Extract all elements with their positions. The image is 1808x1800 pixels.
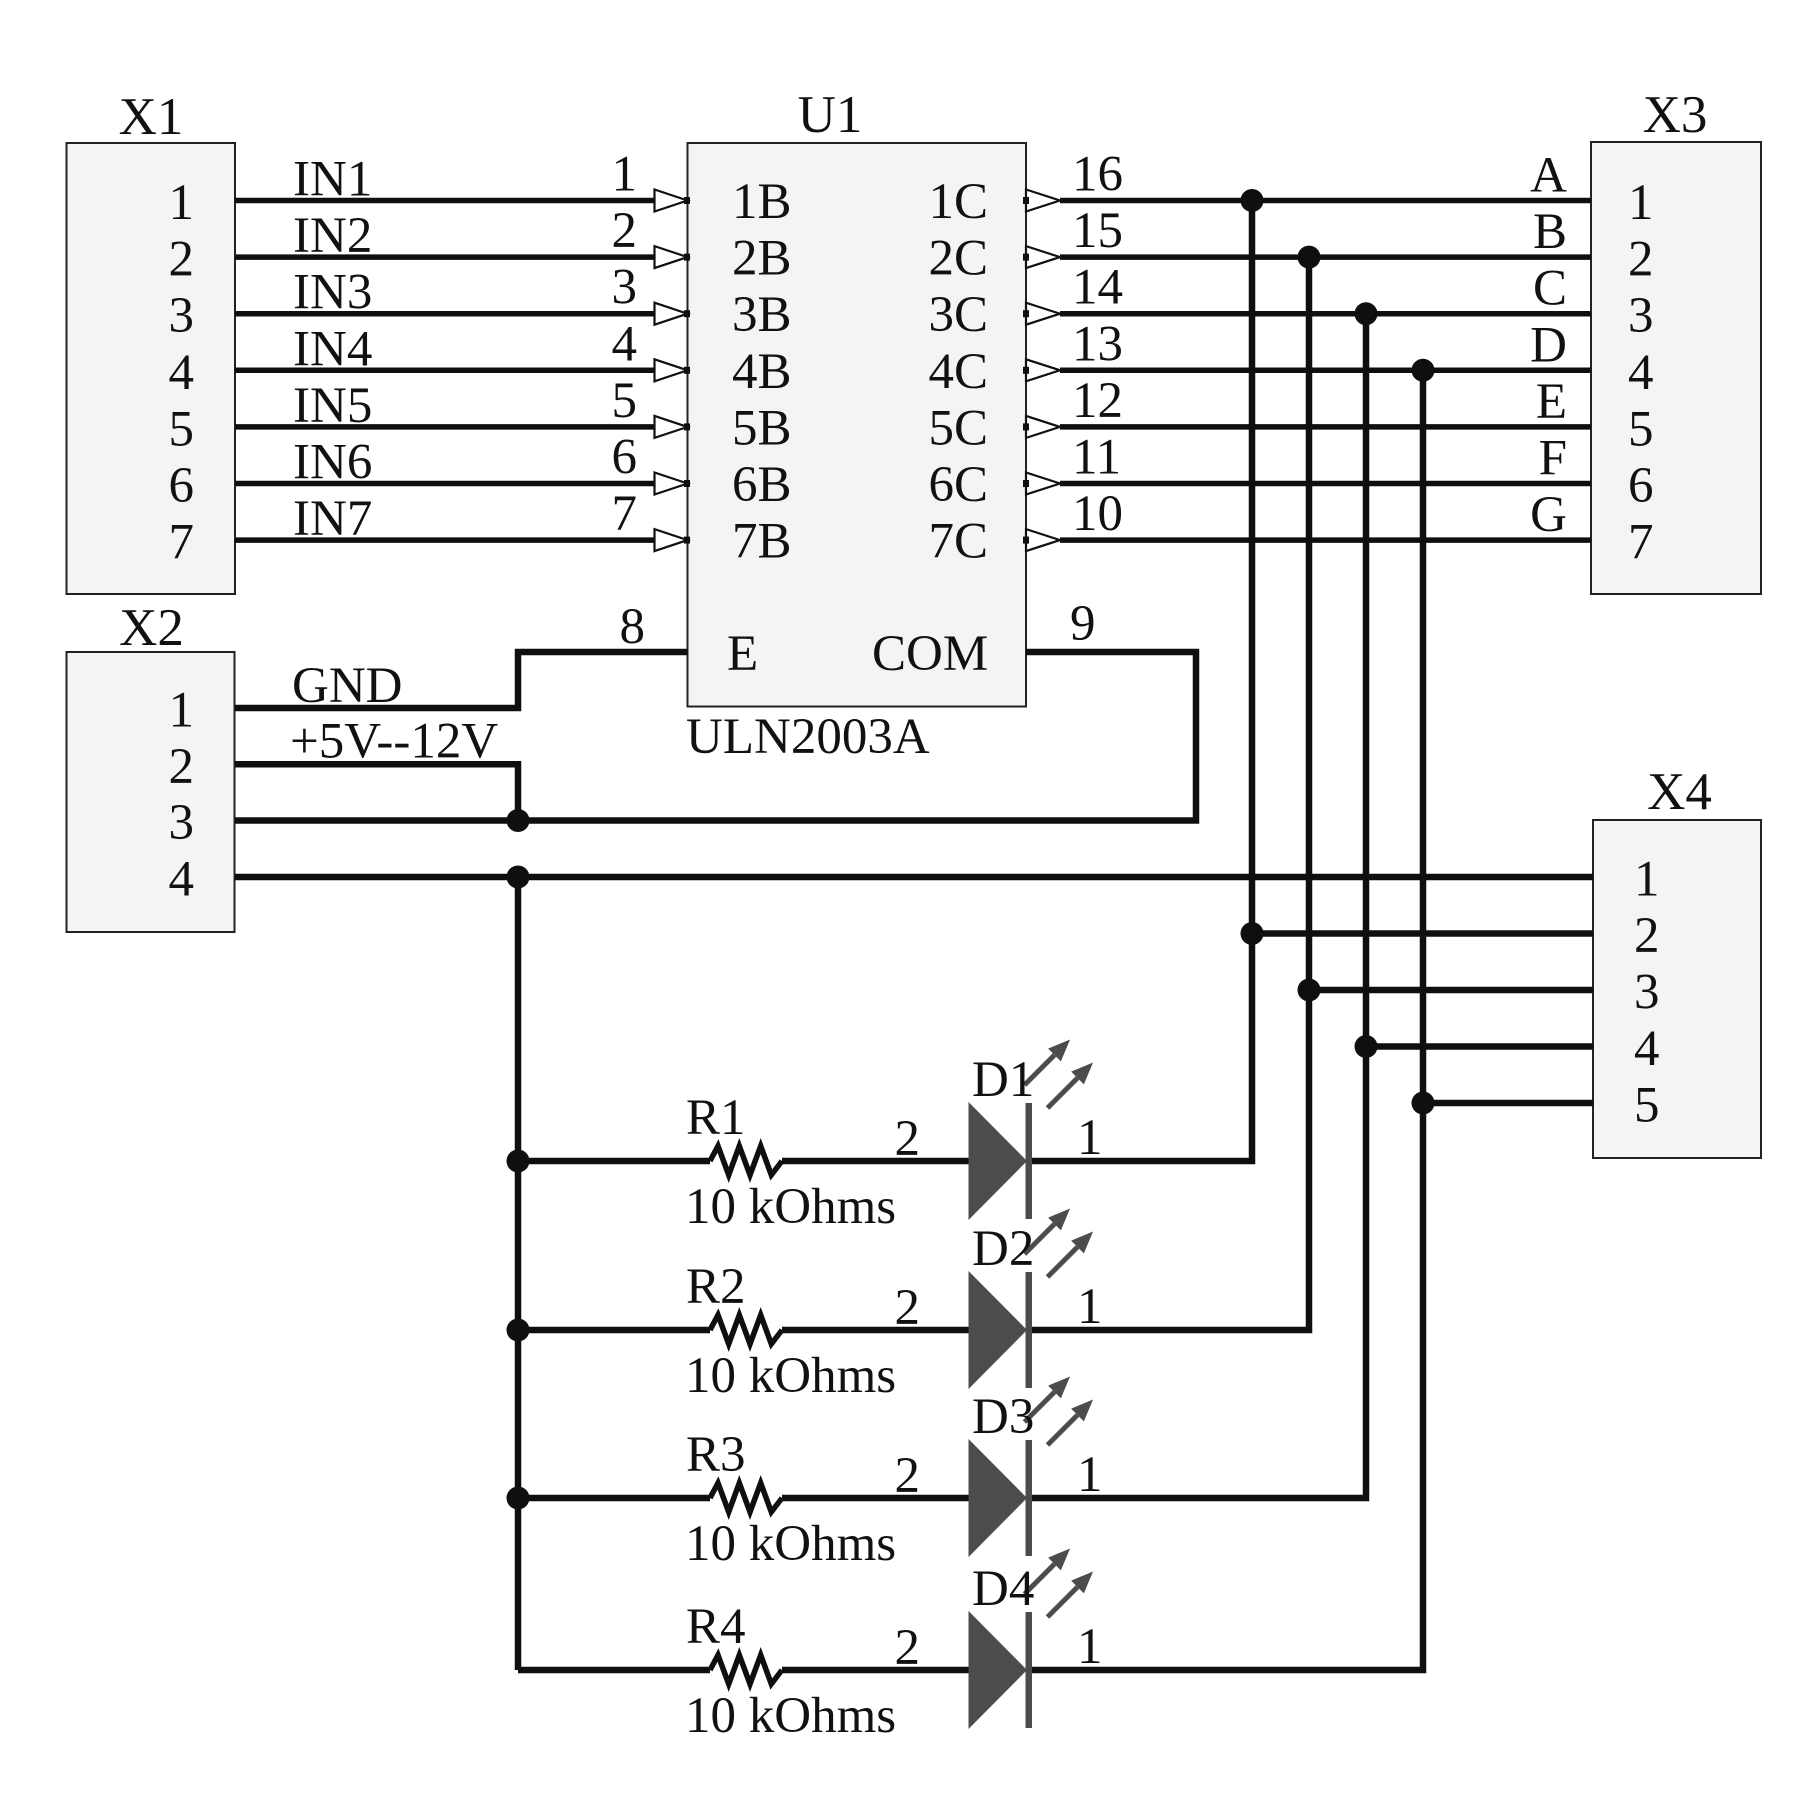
svg-text:D3: D3 xyxy=(972,1389,1034,1445)
svg-text:X3: X3 xyxy=(1643,86,1708,144)
svg-text:2B: 2B xyxy=(732,231,792,287)
svg-text:5B: 5B xyxy=(732,400,792,456)
svg-text:7C: 7C xyxy=(928,514,988,570)
svg-text:1: 1 xyxy=(1077,1110,1103,1166)
svg-text:1: 1 xyxy=(1077,1279,1103,1335)
svg-text:X1: X1 xyxy=(119,88,184,146)
svg-text:2: 2 xyxy=(895,1620,921,1676)
svg-text:A: A xyxy=(1530,148,1567,204)
svg-text:5: 5 xyxy=(612,373,638,429)
svg-text:6C: 6C xyxy=(928,457,988,513)
svg-text:1: 1 xyxy=(1634,852,1660,908)
svg-text:5: 5 xyxy=(1634,1078,1660,1134)
svg-text:X4: X4 xyxy=(1647,763,1712,821)
svg-text:D1: D1 xyxy=(972,1052,1034,1108)
svg-text:2: 2 xyxy=(169,739,195,795)
svg-text:1: 1 xyxy=(169,175,195,231)
svg-text:COM: COM xyxy=(872,626,988,682)
svg-text:3: 3 xyxy=(169,795,195,851)
svg-text:6: 6 xyxy=(169,458,195,514)
svg-text:15: 15 xyxy=(1072,203,1123,259)
svg-text:6: 6 xyxy=(1628,458,1654,514)
svg-text:U1: U1 xyxy=(798,86,863,144)
svg-text:10 kOhms: 10 kOhms xyxy=(685,1688,896,1744)
svg-text:3: 3 xyxy=(612,260,638,316)
svg-text:C: C xyxy=(1533,261,1567,317)
svg-text:B: B xyxy=(1533,204,1567,260)
svg-text:2: 2 xyxy=(895,1280,921,1336)
svg-text:4: 4 xyxy=(1634,1021,1660,1077)
svg-text:R1: R1 xyxy=(686,1090,746,1146)
svg-text:2C: 2C xyxy=(928,231,988,287)
svg-text:GND: GND xyxy=(292,658,403,714)
svg-text:3B: 3B xyxy=(732,287,792,343)
svg-text:10 kOhms: 10 kOhms xyxy=(685,1179,896,1235)
svg-text:13: 13 xyxy=(1072,316,1123,372)
svg-text:D: D xyxy=(1530,317,1567,373)
svg-text:10 kOhms: 10 kOhms xyxy=(685,1516,896,1572)
svg-text:IN7: IN7 xyxy=(293,491,372,547)
svg-text:1: 1 xyxy=(612,147,638,203)
svg-text:E: E xyxy=(727,626,758,682)
svg-text:R3: R3 xyxy=(686,1427,746,1483)
svg-text:R2: R2 xyxy=(686,1259,746,1315)
svg-text:1: 1 xyxy=(169,683,195,739)
svg-text:D2: D2 xyxy=(972,1221,1034,1277)
svg-text:1: 1 xyxy=(1077,1447,1103,1503)
svg-text:2: 2 xyxy=(1628,232,1654,288)
svg-text:6: 6 xyxy=(612,430,638,486)
svg-text:4: 4 xyxy=(169,852,195,908)
svg-text:4: 4 xyxy=(1628,345,1654,401)
svg-text:6B: 6B xyxy=(732,457,792,513)
svg-text:7: 7 xyxy=(612,486,638,542)
svg-text:4C: 4C xyxy=(928,344,988,400)
svg-text:4: 4 xyxy=(169,345,195,401)
svg-text:12: 12 xyxy=(1072,373,1123,429)
svg-text:D4: D4 xyxy=(972,1561,1034,1617)
svg-text:IN1: IN1 xyxy=(293,152,372,208)
svg-text:10 kOhms: 10 kOhms xyxy=(685,1348,896,1404)
svg-text:8: 8 xyxy=(620,599,646,655)
svg-text:IN2: IN2 xyxy=(293,208,372,264)
svg-text:+5V--12V: +5V--12V xyxy=(290,714,498,770)
svg-text:2: 2 xyxy=(612,203,638,259)
svg-text:7: 7 xyxy=(169,515,195,571)
svg-text:1: 1 xyxy=(1628,175,1654,231)
svg-text:3: 3 xyxy=(1634,965,1660,1021)
svg-text:3: 3 xyxy=(169,288,195,344)
svg-text:IN6: IN6 xyxy=(293,435,372,491)
svg-text:R4: R4 xyxy=(686,1599,746,1655)
svg-text:3C: 3C xyxy=(928,287,988,343)
svg-text:2: 2 xyxy=(895,1448,921,1504)
svg-text:2: 2 xyxy=(169,232,195,288)
svg-text:5: 5 xyxy=(1628,401,1654,457)
svg-text:4: 4 xyxy=(612,316,638,372)
svg-text:2: 2 xyxy=(895,1111,921,1167)
svg-text:5C: 5C xyxy=(928,400,988,456)
svg-text:7: 7 xyxy=(1628,515,1654,571)
svg-text:3: 3 xyxy=(1628,288,1654,344)
svg-text:7B: 7B xyxy=(732,514,792,570)
svg-text:11: 11 xyxy=(1072,430,1121,486)
svg-text:1B: 1B xyxy=(732,174,792,230)
svg-text:F: F xyxy=(1539,431,1567,487)
svg-text:10: 10 xyxy=(1072,486,1123,542)
svg-text:4B: 4B xyxy=(732,344,792,400)
svg-text:E: E xyxy=(1536,374,1567,430)
svg-text:9: 9 xyxy=(1070,596,1096,652)
svg-text:G: G xyxy=(1530,487,1567,543)
svg-text:1C: 1C xyxy=(928,174,988,230)
svg-text:14: 14 xyxy=(1072,260,1123,316)
svg-text:IN4: IN4 xyxy=(293,321,372,377)
svg-text:2: 2 xyxy=(1634,908,1660,964)
svg-text:IN5: IN5 xyxy=(293,378,372,434)
svg-text:5: 5 xyxy=(169,401,195,457)
svg-text:16: 16 xyxy=(1072,147,1123,203)
svg-text:ULN2003A: ULN2003A xyxy=(686,709,930,765)
svg-text:1: 1 xyxy=(1077,1619,1103,1675)
svg-text:IN3: IN3 xyxy=(293,265,372,321)
svg-text:X2: X2 xyxy=(119,599,184,657)
